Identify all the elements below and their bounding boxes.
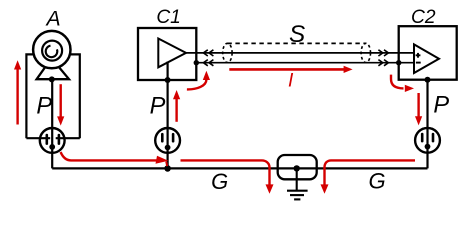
shield S left ellipse <box>223 43 232 62</box>
wire red curve down from cable at C2 <box>391 75 404 89</box>
arrowhead down inside A box <box>57 116 64 125</box>
outer circle of A <box>33 31 70 68</box>
wire red up-arrow left of A <box>16 69 18 125</box>
wire red ground left segment to earth <box>181 160 270 184</box>
middle circle of A <box>42 41 62 61</box>
plug P1 circle <box>40 128 65 153</box>
svg-text:C2: C2 <box>411 7 436 28</box>
svg-text:I: I <box>288 71 294 92</box>
plug P3 circle <box>415 128 440 153</box>
wire into plug P1 right <box>56 137 80 139</box>
arrowhead up at P2 <box>173 90 180 99</box>
red current arrows <box>18 69 419 185</box>
arrowhead down at P3 <box>415 116 422 125</box>
wire red up-arrow at P2 <box>175 99 177 122</box>
plug P1 ground pin <box>49 144 55 150</box>
stand trapezoid of A <box>37 66 69 79</box>
arrowhead down right of earth <box>321 184 329 193</box>
connector chevrons at C1 upper <box>203 50 388 66</box>
svg-text:A: A <box>45 7 61 30</box>
plug P3 ground pin <box>425 144 431 150</box>
wire red curve up into cable at C1 <box>187 80 207 90</box>
svg-text:G: G <box>368 169 385 194</box>
wire A box right side <box>70 54 80 138</box>
connector chevrons at C1 lower <box>203 60 207 66</box>
ground wire G <box>52 167 427 169</box>
wire C1 ground internal <box>167 62 169 81</box>
svg-text:P: P <box>36 93 52 119</box>
shield S right ellipse <box>361 43 370 62</box>
shield S dashed top <box>227 42 365 44</box>
plug P1 blades <box>45 135 48 144</box>
cable lower conductor <box>196 62 414 64</box>
arrowhead down left of earth <box>266 184 274 193</box>
svg-text:G: G <box>211 169 228 194</box>
earth ground symbol <box>287 168 308 199</box>
wire red stub into P2 node <box>166 162 167 167</box>
arrowhead up left of A <box>14 60 21 69</box>
wire C2 to plug P3 to ground <box>426 80 428 169</box>
plug P2 circle <box>155 128 180 153</box>
plug P2 ground pin <box>165 145 171 151</box>
wire from A stand through plug P1 to ground <box>51 79 53 168</box>
plug P3 blades <box>421 134 424 141</box>
node C2 input shield <box>396 60 401 65</box>
node A stand <box>49 76 55 82</box>
arrowhead right current I <box>344 66 353 73</box>
plug P2 blades <box>161 134 164 141</box>
wire into plug P1 left <box>26 137 50 139</box>
node earth <box>294 165 300 171</box>
wire red from P1 to C1 ground <box>61 152 159 160</box>
cable upper conductor <box>186 52 414 54</box>
svg-text:P: P <box>433 93 449 119</box>
component C2 box <box>399 26 457 79</box>
svg-text:C1: C1 <box>156 7 181 28</box>
arrowhead right at C2 <box>405 85 414 92</box>
plus input label <box>416 53 421 58</box>
wire red down-arrow at P3 <box>417 93 419 117</box>
svg-text:P: P <box>150 94 166 120</box>
connector chevrons at C2 upper <box>378 50 382 56</box>
op-amp triangle in C2 <box>414 44 439 73</box>
node ground at P2 <box>164 165 171 172</box>
wire red ground right segment to earth <box>325 160 416 184</box>
arrowhead right at P2 node <box>156 156 169 164</box>
inner arc of A <box>46 46 58 58</box>
component C1 box <box>138 28 196 80</box>
op-amp triangle in C1 <box>158 39 186 68</box>
earth connection box <box>278 155 317 179</box>
node C1 output shield <box>194 60 199 65</box>
device A (camera/source) <box>33 31 70 79</box>
arrowhead up into cable at C1 <box>203 71 210 80</box>
node C1 bottom <box>165 77 171 83</box>
minus input label <box>416 62 421 64</box>
connector chevrons at C2 lower <box>378 60 382 66</box>
wire A box left side <box>26 54 33 138</box>
node C2 bottom <box>425 77 431 83</box>
svg-text:S: S <box>289 21 305 48</box>
wire red down-arrow inside A box <box>60 84 62 117</box>
wire red current I along cable <box>229 68 344 71</box>
wire C1 to plug P2 to ground <box>167 80 169 168</box>
